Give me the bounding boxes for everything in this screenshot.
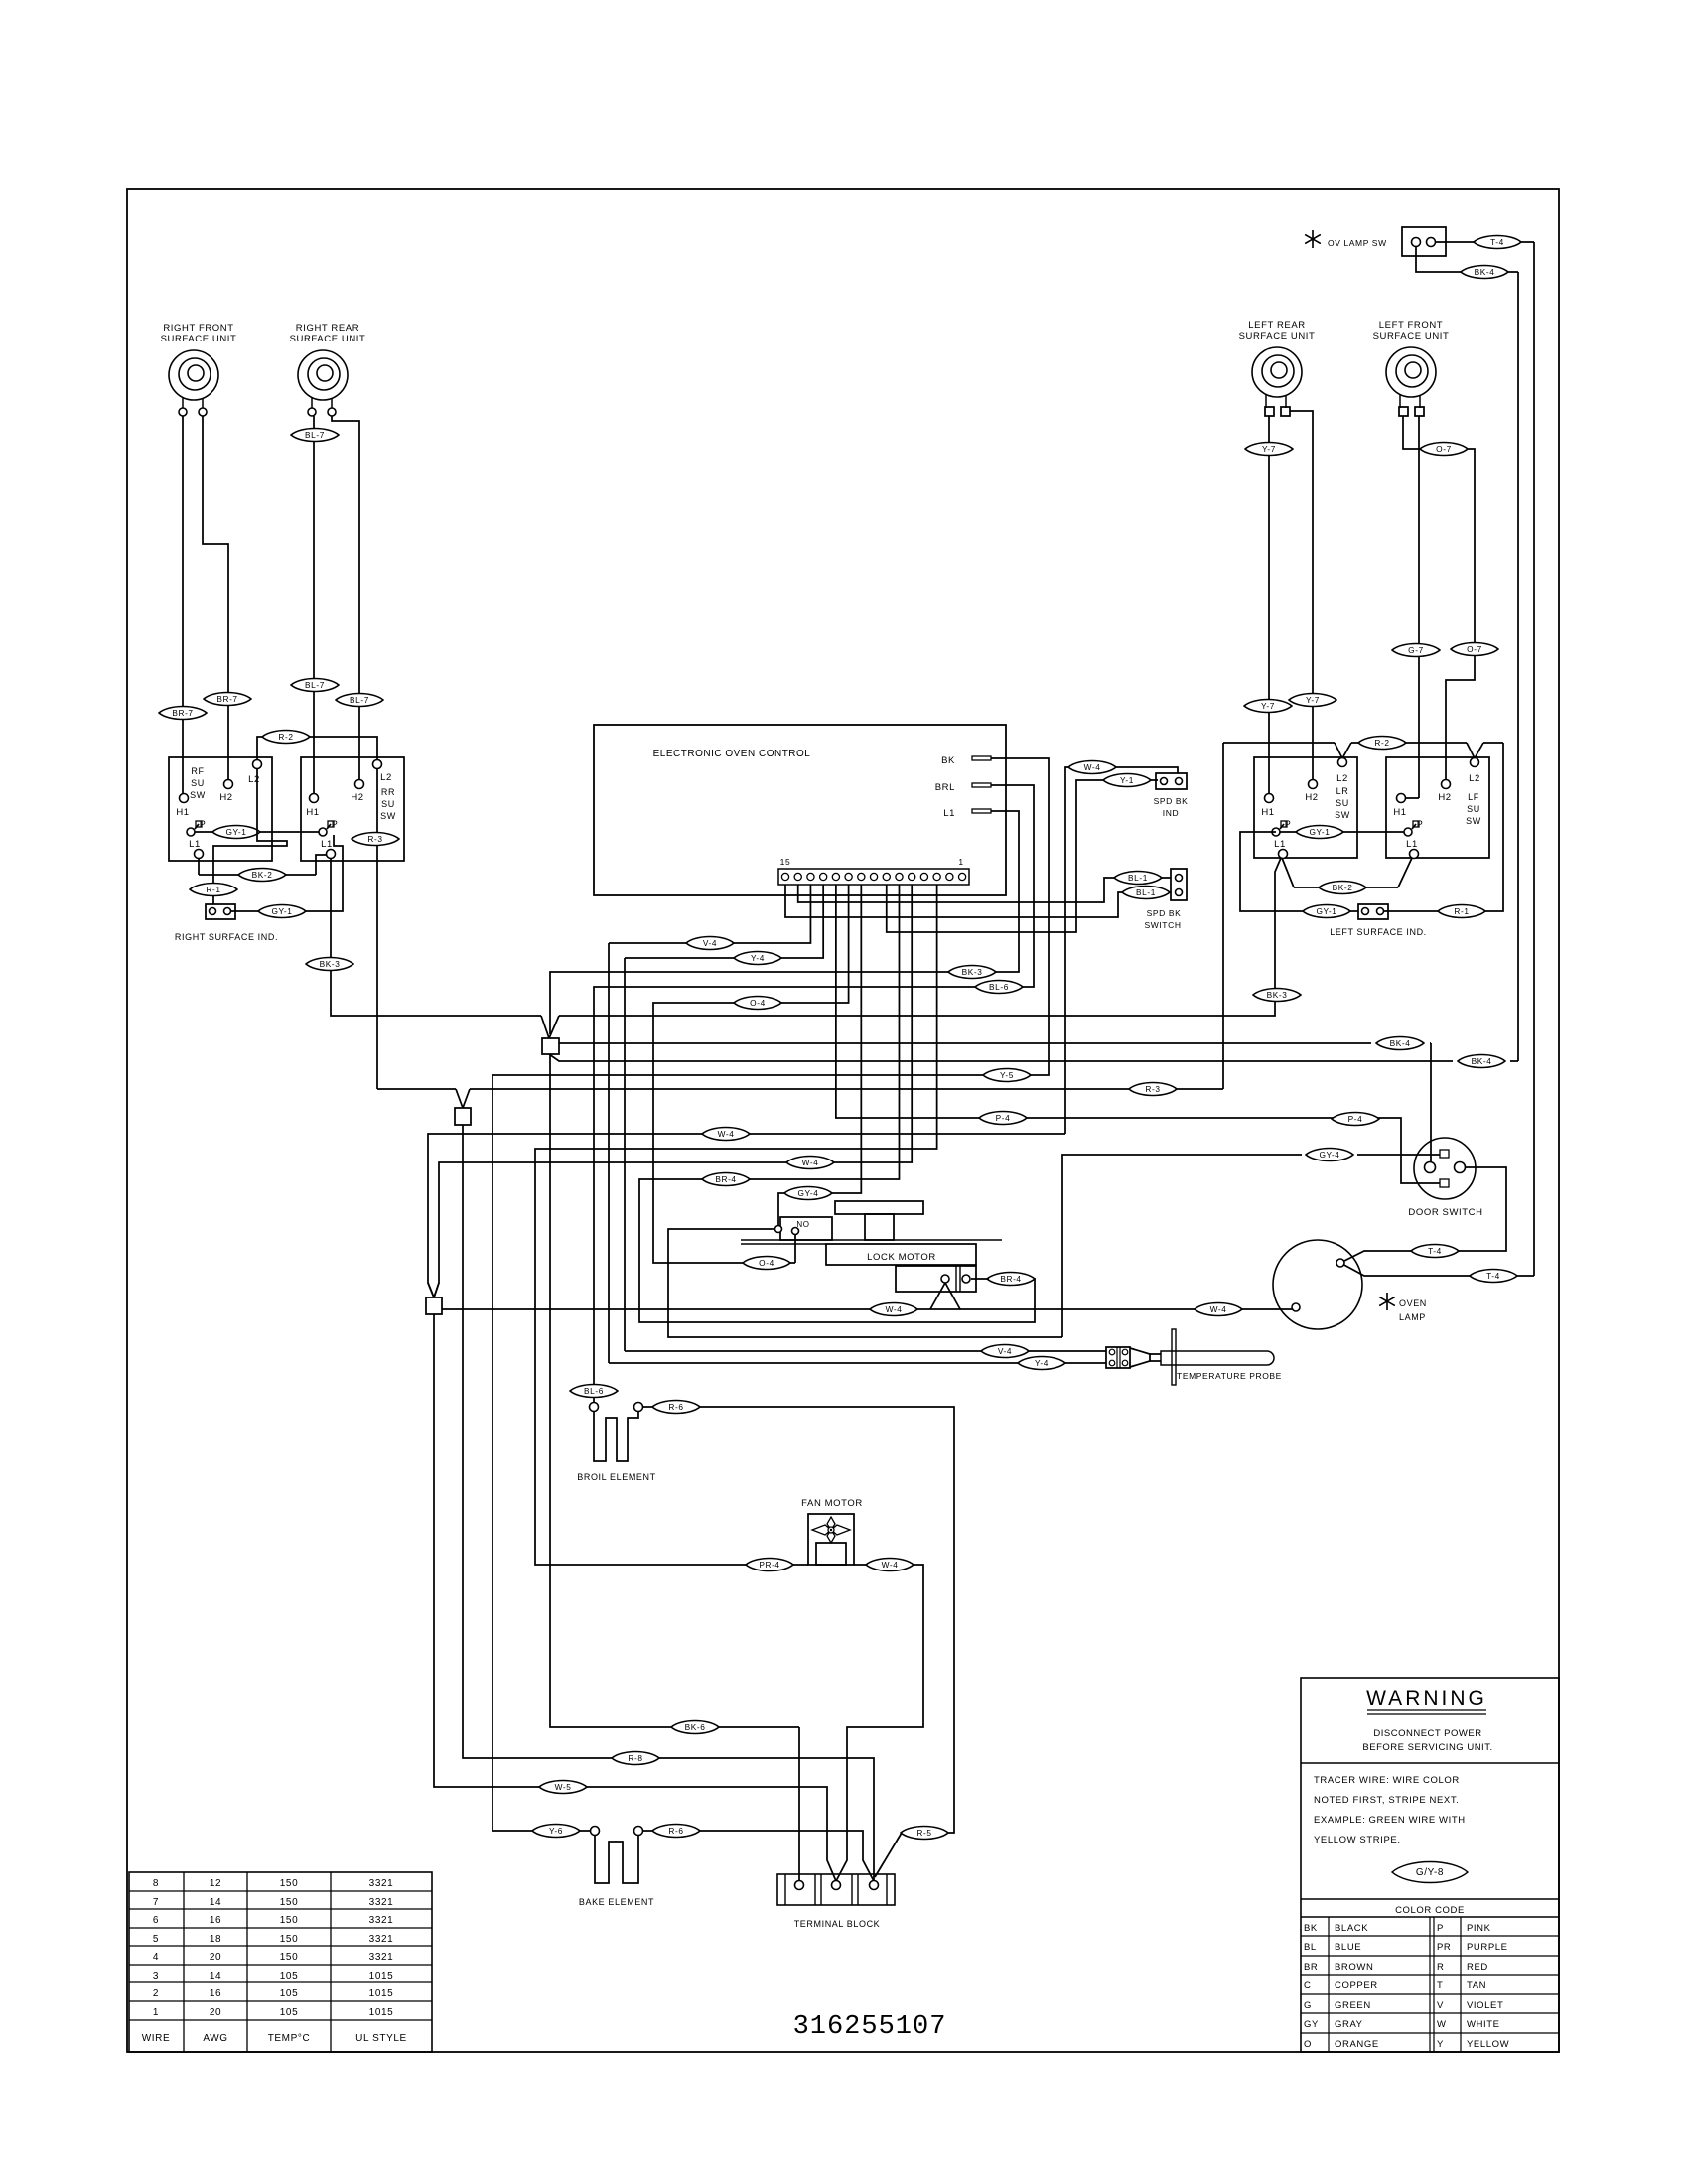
svg-text:BAKE ELEMENT: BAKE ELEMENT <box>579 1897 654 1907</box>
svg-text:1015: 1015 <box>369 1971 394 1981</box>
LF H2 terminal <box>1442 780 1451 789</box>
R-2 V drop to LR L2 <box>1335 743 1342 758</box>
wire RF H2 lead down <box>203 416 228 780</box>
label BL-1 <box>1122 886 1170 898</box>
speed bake indicator box SPD BK IND <box>1156 773 1187 789</box>
svg-text:W-4: W-4 <box>882 1560 899 1570</box>
LR H1 terminal <box>1265 794 1274 803</box>
wire BL-6 from EOC BRL pin to broil element <box>594 785 1034 1403</box>
svg-text:BL-7: BL-7 <box>305 680 325 690</box>
lock switch NO pin <box>792 1228 799 1235</box>
label GY-4 <box>784 1186 832 1199</box>
svg-text:GY-1: GY-1 <box>1316 906 1336 916</box>
wire RR H1 lead down <box>313 416 315 794</box>
svg-text:V-4: V-4 <box>703 938 717 948</box>
svg-text:BL-1: BL-1 <box>1136 887 1156 897</box>
svg-text:BR-7: BR-7 <box>172 708 193 718</box>
svg-text:LR: LR <box>1336 786 1349 796</box>
wire BK-4 vertical right side <box>1517 272 1519 1061</box>
svg-text:3: 3 <box>153 1971 159 1981</box>
svg-text:G-7: G-7 <box>1408 645 1424 655</box>
junction splice 3 white <box>428 1283 434 1297</box>
label T-4 <box>1470 1269 1517 1282</box>
svg-text:R-3: R-3 <box>367 834 382 844</box>
svg-text:SU: SU <box>381 799 395 809</box>
label PR-4 <box>746 1558 793 1570</box>
wire RR H2 lead down <box>332 416 359 780</box>
LR P contact and L1 <box>1272 828 1280 836</box>
svg-text:BK-6: BK-6 <box>685 1722 706 1732</box>
warning box <box>1301 1678 1559 2052</box>
svg-text:BLACK: BLACK <box>1335 1923 1368 1934</box>
svg-text:W: W <box>1437 2019 1447 2030</box>
svg-text:NO: NO <box>796 1220 809 1229</box>
label R-5 <box>901 1826 948 1839</box>
svg-text:BR-4: BR-4 <box>715 1174 736 1184</box>
svg-text:BEFORE SERVICING UNIT.: BEFORE SERVICING UNIT. <box>1362 1742 1492 1753</box>
label BR-4 <box>987 1272 1035 1285</box>
svg-text:H2: H2 <box>351 792 363 803</box>
RR P contact and L1 <box>319 828 327 836</box>
lock motor switch box <box>780 1217 832 1240</box>
svg-text:316255107: 316255107 <box>793 2012 947 2042</box>
svg-text:SURFACE UNIT: SURFACE UNIT <box>290 334 366 344</box>
svg-text:RR: RR <box>381 787 395 797</box>
label O-4 <box>734 996 781 1009</box>
label BK-3 <box>948 965 996 978</box>
label GY-1 <box>1303 904 1350 917</box>
svg-text:H1: H1 <box>1261 807 1274 818</box>
svg-text:RIGHT SURFACE IND.: RIGHT SURFACE IND. <box>175 932 278 942</box>
wire L2 to R-1 indicator path <box>213 768 287 904</box>
svg-text:W-4: W-4 <box>802 1158 819 1167</box>
svg-text:ORANGE: ORANGE <box>1335 2039 1379 2050</box>
label R-6 <box>652 1400 700 1413</box>
junction splice 2 red <box>456 1089 463 1108</box>
svg-text:BK: BK <box>1304 1923 1318 1934</box>
svg-text:3321: 3321 <box>369 1934 394 1945</box>
svg-text:R-2: R-2 <box>1374 738 1389 748</box>
label V-4 <box>686 936 734 949</box>
wire W-4 junction3 to oven lamp and lock motor <box>442 1308 870 1310</box>
wire from pin 15 to speed bake switch <box>785 885 1124 917</box>
svg-text:ELECTRONIC OVEN CONTROL: ELECTRONIC OVEN CONTROL <box>653 749 811 759</box>
wire W-4 fan motor to terminal block <box>854 1564 866 1566</box>
bake element coil <box>595 1836 638 1883</box>
wire R-2 bus left switches <box>1225 742 1335 744</box>
svg-text:BR-4: BR-4 <box>1000 1274 1021 1284</box>
svg-text:P: P <box>332 819 339 829</box>
svg-text:P: P <box>1437 1923 1444 1934</box>
oven lamp top pin <box>1336 1259 1344 1267</box>
svg-text:SPD BK: SPD BK <box>1147 908 1182 918</box>
label W-4 <box>1068 760 1116 773</box>
wire PR-4 from pin 3 to fan motor <box>535 885 937 1565</box>
label BK-2 <box>1319 881 1366 893</box>
svg-text:SURFACE UNIT: SURFACE UNIT <box>1373 331 1450 341</box>
color code table <box>1301 1935 1559 1937</box>
label O-4 <box>743 1256 790 1269</box>
terminal block lug 3 <box>870 1881 879 1890</box>
wire O-4 from pin 10 to lock motor switch <box>653 885 849 1263</box>
svg-text:YELLOW STRIPE.: YELLOW STRIPE. <box>1314 1835 1401 1845</box>
svg-text:P-4: P-4 <box>1348 1114 1363 1124</box>
wire GY-1 bus left P to P <box>1280 831 1404 833</box>
label P-4 <box>1332 1112 1379 1125</box>
infinite switch LR SU SW box <box>1254 757 1357 858</box>
svg-text:O-7: O-7 <box>1436 444 1452 454</box>
svg-text:150: 150 <box>280 1934 299 1945</box>
svg-text:SURFACE UNIT: SURFACE UNIT <box>1239 331 1316 341</box>
terminal block lug 1 <box>795 1881 804 1890</box>
svg-text:GY-1: GY-1 <box>225 827 246 837</box>
svg-text:L2: L2 <box>248 774 260 785</box>
svg-text:1015: 1015 <box>369 1988 394 1999</box>
label BR-7 <box>204 692 251 705</box>
svg-text:R-6: R-6 <box>668 1402 683 1412</box>
wire BK-2 linking L1 terminals <box>198 858 200 875</box>
label GY-1 <box>212 825 260 838</box>
wire W-4 V into lock motor pin <box>930 1283 945 1309</box>
svg-text:1: 1 <box>958 857 963 867</box>
svg-text:15: 15 <box>780 857 791 867</box>
lock motor bar <box>741 1239 1002 1241</box>
svg-text:H1: H1 <box>306 807 319 818</box>
wire BK-3 from EOC L1 pin to junction <box>550 811 1019 1034</box>
svg-text:L2: L2 <box>380 772 392 783</box>
svg-text:L1: L1 <box>321 839 333 850</box>
label BK-6 <box>671 1720 719 1733</box>
EOC terminal strip <box>778 869 969 885</box>
warning divider <box>1301 1762 1559 1764</box>
svg-text:BK-3: BK-3 <box>320 959 341 969</box>
terminal block lug 2 <box>832 1881 841 1890</box>
svg-text:BK: BK <box>941 755 955 766</box>
fan blades <box>812 1517 850 1543</box>
wire G-7 from LF right terminal <box>1418 416 1420 798</box>
svg-text:FAN MOTOR: FAN MOTOR <box>801 1498 863 1509</box>
svg-text:18: 18 <box>210 1934 221 1945</box>
svg-text:Y-7: Y-7 <box>1306 695 1320 705</box>
broil element terminals <box>590 1403 599 1412</box>
svg-text:W-4: W-4 <box>718 1129 735 1139</box>
label W-5 <box>539 1780 587 1793</box>
label V-4 <box>981 1344 1029 1357</box>
wire W-4 white from pin 5 to junction 3 <box>434 885 912 1297</box>
svg-text:TAN: TAN <box>1467 1980 1486 1991</box>
svg-text:L2: L2 <box>1336 773 1348 784</box>
svg-text:O-7: O-7 <box>1467 644 1482 654</box>
wire Y-4 to probe plug <box>625 1350 1106 1352</box>
label T-4 <box>1411 1244 1459 1257</box>
svg-text:LF: LF <box>1468 792 1479 802</box>
wire Y-5 from EOC BK pin to bake element <box>492 758 1049 1831</box>
label GY-4 <box>1306 1148 1353 1160</box>
svg-text:L1: L1 <box>943 808 955 819</box>
svg-text:1015: 1015 <box>369 2007 394 2018</box>
svg-text:Y: Y <box>1437 2039 1444 2050</box>
wire R-3 from RR L2 down <box>376 768 378 1089</box>
svg-text:GY-1: GY-1 <box>271 906 292 916</box>
wire R-5 diagonal into terminal block <box>875 1833 902 1877</box>
wire BK-6 junction1 down to terminal block <box>550 1054 673 1727</box>
wire BK-2 linking left L1 terminals <box>1282 858 1294 887</box>
svg-text:T-4: T-4 <box>1486 1271 1500 1281</box>
svg-text:Y-6: Y-6 <box>549 1826 563 1836</box>
label Y-4 <box>1018 1356 1065 1369</box>
svg-text:UL STYLE: UL STYLE <box>355 2033 407 2044</box>
svg-text:SW: SW <box>380 811 396 821</box>
door switch top pin <box>1440 1150 1449 1158</box>
lock motor body box <box>826 1244 976 1265</box>
wire W-4 white from indicator bus to junction 3 <box>428 1134 1065 1297</box>
svg-text:BK-3: BK-3 <box>962 967 983 977</box>
svg-text:105: 105 <box>280 2007 299 2018</box>
svg-text:SW: SW <box>1466 816 1481 826</box>
svg-text:SW: SW <box>1335 810 1350 820</box>
label W-4 <box>866 1558 914 1570</box>
lock motor brown pin <box>962 1275 970 1283</box>
temperature probe plug <box>1106 1347 1130 1368</box>
label W-4 <box>786 1156 834 1168</box>
label W-4 <box>702 1127 750 1140</box>
surface unit coil LEFT REAR <box>1252 347 1302 397</box>
svg-text:6: 6 <box>153 1915 159 1926</box>
wire V-4 from pin 13 to temperature probe <box>609 885 810 943</box>
label BK-4 <box>1376 1036 1424 1049</box>
label BR-4 <box>702 1172 750 1185</box>
wire from pin 14 to speed bake switch <box>798 878 1116 902</box>
svg-text:V: V <box>1437 2000 1444 2011</box>
svg-text:Y-4: Y-4 <box>751 953 765 963</box>
svg-text:LOCK MOTOR: LOCK MOTOR <box>867 1252 936 1263</box>
label R-2 <box>1358 736 1406 749</box>
svg-text:TEMPERATURE PROBE: TEMPERATURE PROBE <box>1177 1371 1282 1381</box>
svg-text:LAMP: LAMP <box>1399 1312 1426 1322</box>
RF P contact and L1 <box>187 828 195 836</box>
svg-text:DOOR SWITCH: DOOR SWITCH <box>1408 1207 1482 1218</box>
svg-text:BROWN: BROWN <box>1335 1962 1373 1973</box>
svg-text:BL: BL <box>1304 1942 1317 1953</box>
label GY-1 <box>258 904 306 917</box>
svg-text:Y-7: Y-7 <box>1262 444 1276 454</box>
infinite switch RF SU SW box <box>169 757 272 861</box>
svg-text:SU: SU <box>1467 804 1480 814</box>
wire BK-3 from LR L1 down to junction bus <box>559 858 1281 1016</box>
svg-text:105: 105 <box>280 1971 299 1981</box>
svg-text:20: 20 <box>210 2007 221 2018</box>
wire Y-4 from pin 12 to temperature probe <box>625 885 823 958</box>
wire T-4 oven lamp to lamp switch <box>1340 1263 1470 1276</box>
svg-text:BK-3: BK-3 <box>1267 990 1288 1000</box>
label Y-6 <box>532 1824 580 1837</box>
oven lamp bottom pin <box>1292 1303 1300 1311</box>
label O-7 <box>1420 442 1468 455</box>
svg-text:GY-1: GY-1 <box>1309 827 1330 837</box>
door switch right pin <box>1455 1162 1466 1173</box>
svg-text:PINK: PINK <box>1467 1923 1491 1934</box>
label G-7 <box>1392 643 1440 656</box>
svg-text:PR-4: PR-4 <box>759 1560 779 1570</box>
svg-text:R-6: R-6 <box>668 1826 683 1836</box>
fan motor lower housing <box>816 1543 846 1565</box>
svg-text:Y-1: Y-1 <box>1120 775 1134 785</box>
svg-text:L1: L1 <box>189 839 201 850</box>
lock motor cam plate <box>835 1201 923 1214</box>
LR H2 terminal <box>1309 780 1318 789</box>
svg-text:H1: H1 <box>176 807 189 818</box>
svg-text:W-4: W-4 <box>1084 762 1101 772</box>
broil element coil <box>594 1412 638 1461</box>
label GY-1 <box>1296 825 1343 838</box>
label R-6 <box>652 1824 700 1837</box>
svg-text:BR-7: BR-7 <box>216 694 237 704</box>
surface unit coil LEFT FRONT <box>1386 347 1436 397</box>
svg-text:GY-4: GY-4 <box>1319 1150 1339 1160</box>
door switch body <box>1414 1138 1476 1199</box>
wire from pin 7 to speed bake indicator Y-1 <box>887 780 1104 932</box>
wire R-3 right end rises to left R-2 bus <box>1222 743 1224 1089</box>
svg-text:L1: L1 <box>1274 839 1286 850</box>
svg-text:RIGHT FRONT: RIGHT FRONT <box>163 323 233 334</box>
wire GY-1 bus P to P <box>195 831 319 833</box>
svg-text:Y-7: Y-7 <box>1261 701 1275 711</box>
svg-text:EXAMPLE: GREEN WIRE WITH: EXAMPLE: GREEN WIRE WITH <box>1314 1815 1466 1826</box>
left surface indicator box <box>1358 904 1388 919</box>
wire R-8 junction2 down to terminal block <box>463 1125 612 1758</box>
door switch left pin <box>1425 1162 1436 1173</box>
svg-text:12: 12 <box>210 1878 221 1889</box>
svg-text:G: G <box>1304 2000 1312 2011</box>
RF H2 terminal <box>224 780 233 789</box>
wire R-2 linking RF RR L2 <box>257 737 377 760</box>
svg-text:W-4: W-4 <box>1210 1304 1227 1314</box>
svg-text:TEMP°C: TEMP°C <box>268 2033 311 2044</box>
label BL-7 <box>291 428 339 441</box>
svg-text:P-4: P-4 <box>996 1113 1011 1123</box>
label P-4 <box>979 1111 1027 1124</box>
wire P-4 from pin 11 to door switch <box>836 885 1440 1183</box>
svg-text:BL-1: BL-1 <box>1128 873 1148 883</box>
svg-text:H2: H2 <box>1438 792 1451 803</box>
svg-text:BK-2: BK-2 <box>252 870 273 880</box>
LR L2 terminal <box>1338 758 1347 767</box>
label BL-1 <box>1114 871 1162 884</box>
svg-text:RIGHT REAR: RIGHT REAR <box>296 323 359 334</box>
svg-text:RF: RF <box>191 766 204 776</box>
svg-text:8: 8 <box>153 1878 159 1889</box>
svg-text:L2: L2 <box>1469 773 1480 784</box>
svg-text:PR: PR <box>1437 1942 1451 1953</box>
RR H1 terminal <box>310 794 319 803</box>
wire R-6 bake to terminal block <box>643 1830 652 1832</box>
label Y-5 <box>983 1068 1031 1081</box>
svg-text:R-8: R-8 <box>628 1753 642 1763</box>
svg-text:BR: BR <box>1304 1962 1318 1973</box>
wire BK-4 branch junction1 to oven lamp switch <box>549 1054 1453 1061</box>
svg-text:SU: SU <box>191 778 205 788</box>
svg-text:LEFT REAR: LEFT REAR <box>1248 320 1306 331</box>
svg-text:16: 16 <box>210 1988 221 1999</box>
svg-text:O-4: O-4 <box>759 1258 774 1268</box>
label Y-4 <box>734 951 781 964</box>
svg-text:105: 105 <box>280 1988 299 1999</box>
svg-text:7: 7 <box>153 1897 159 1908</box>
probe taper <box>1130 1348 1150 1367</box>
svg-text:C: C <box>1304 1980 1311 1991</box>
label BL-7 <box>336 693 383 706</box>
svg-text:V-4: V-4 <box>998 1346 1012 1356</box>
svg-text:AWG: AWG <box>203 2033 227 2044</box>
label BL-6 <box>570 1384 618 1397</box>
surface unit coil RIGHT REAR <box>298 350 348 400</box>
svg-text:T: T <box>1437 1980 1443 1991</box>
label BL-6 <box>975 980 1023 993</box>
wire lock NO pin down to O-4 <box>794 1235 796 1263</box>
lock motor white pin <box>941 1275 949 1283</box>
svg-text:RED: RED <box>1467 1962 1488 1973</box>
wire BR-4 from pin 6 to lock motor <box>639 885 1035 1322</box>
svg-text:1: 1 <box>153 2007 159 2018</box>
svg-text:3321: 3321 <box>369 1915 394 1926</box>
oven lamp switch OV LAMP SW <box>1312 230 1314 248</box>
svg-text:SU: SU <box>1336 798 1349 808</box>
wire LF H1 jog to G-7 <box>1405 797 1419 799</box>
wire GY-1 left indicator feed <box>1240 832 1358 911</box>
svg-text:BL-6: BL-6 <box>584 1386 604 1396</box>
svg-text:H2: H2 <box>1305 792 1318 803</box>
label BK-4 <box>1458 1054 1505 1067</box>
wire W-5 junction3 down to terminal block <box>434 1314 539 1787</box>
speed bake switch box SPD BK SWITCH <box>1171 869 1187 900</box>
page border frame <box>127 189 1559 2052</box>
svg-text:16: 16 <box>210 1915 221 1926</box>
label BK-2 <box>238 868 286 881</box>
svg-text:NOTED FIRST, STRIPE NEXT.: NOTED FIRST, STRIPE NEXT. <box>1314 1795 1459 1806</box>
svg-text:14: 14 <box>210 1897 221 1908</box>
svg-text:Y-5: Y-5 <box>1000 1070 1014 1080</box>
color code divider <box>1301 1898 1559 1900</box>
svg-text:YELLOW: YELLOW <box>1467 2039 1509 2050</box>
terminal block body <box>777 1874 895 1905</box>
svg-text:T-4: T-4 <box>1428 1246 1442 1256</box>
wire BK-3 from RR L1 down to junction bus <box>331 858 541 1016</box>
svg-text:WIRE: WIRE <box>142 2033 171 2044</box>
svg-text:20: 20 <box>210 1952 221 1963</box>
svg-text:W-5: W-5 <box>555 1782 572 1792</box>
svg-text:LEFT SURFACE IND.: LEFT SURFACE IND. <box>1330 927 1427 937</box>
RF L2 terminal <box>253 760 262 769</box>
svg-text:COPPER: COPPER <box>1335 1980 1378 1991</box>
svg-text:P: P <box>1285 819 1292 829</box>
svg-text:IND: IND <box>1163 808 1179 818</box>
label Y-7 <box>1244 699 1292 712</box>
bake element terminals <box>591 1827 600 1836</box>
wire T-4 vertical right side <box>1533 242 1535 1276</box>
junction splice 1 black bus <box>541 1016 549 1038</box>
svg-text:SWITCH: SWITCH <box>1144 920 1181 930</box>
wire lock switch common to GY-4 loop <box>668 1229 1062 1337</box>
svg-text:L1: L1 <box>1406 839 1418 850</box>
door switch bottom pin <box>1440 1179 1449 1187</box>
svg-text:2: 2 <box>153 1988 159 1999</box>
svg-text:150: 150 <box>280 1897 299 1908</box>
R-2 V drop to LF L2 <box>1467 743 1475 758</box>
svg-text:R-2: R-2 <box>278 732 293 742</box>
RF H1 terminal <box>180 794 189 803</box>
wire R-6 broil to R-5 <box>643 1406 652 1408</box>
label Y-1 <box>1103 773 1151 786</box>
